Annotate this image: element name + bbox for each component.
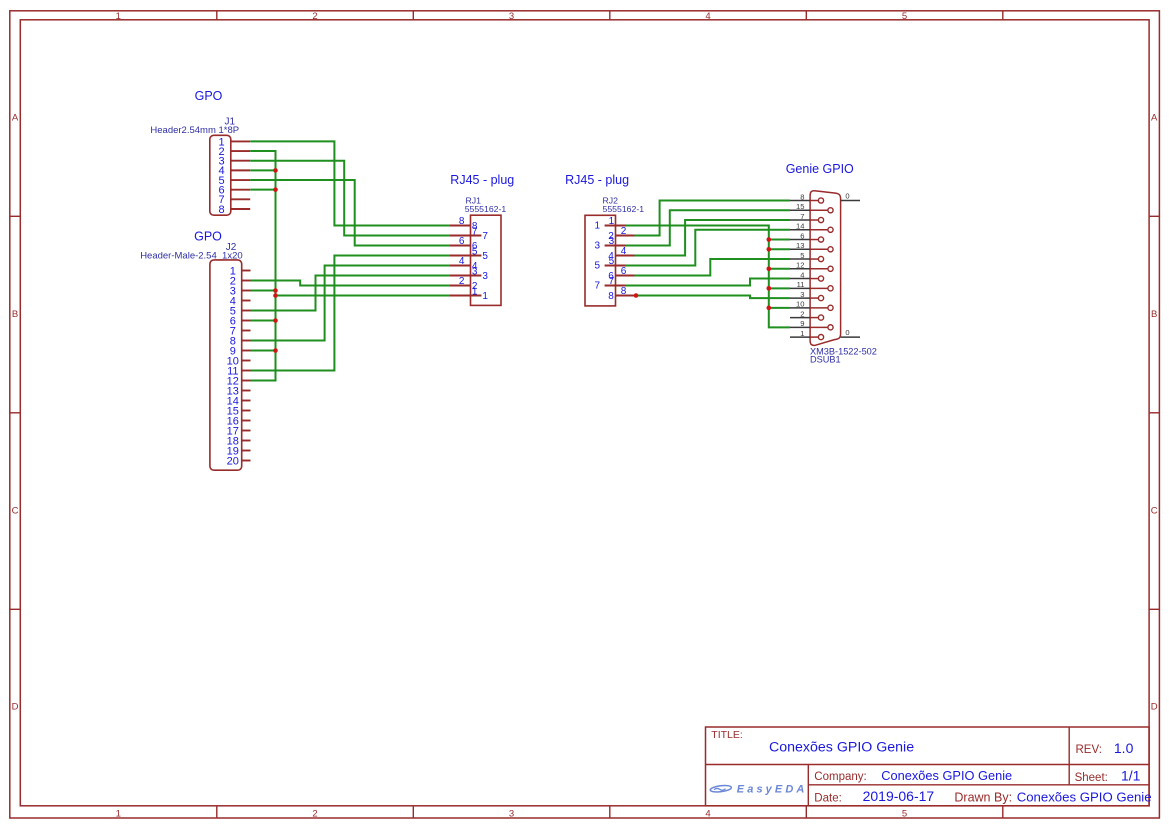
svg-text:1: 1 [594, 221, 600, 232]
DSUB1 shield pin 0 top [841, 192, 860, 201]
wire ground bus to DSUB1.11 [769, 287, 790, 289]
wire RJ2.5 to DSUB1.14 [626, 230, 791, 266]
svg-text:12: 12 [796, 261, 804, 270]
svg-text:1: 1 [609, 216, 615, 227]
wire J2.11 to RJ1.5 [251, 256, 451, 371]
net label RJ45 - plug (RJ1) [450, 173, 514, 187]
svg-text:13: 13 [796, 241, 804, 250]
title block row divider 2 [808, 784, 1149, 786]
svg-text:A: A [1151, 113, 1158, 124]
svg-text:Company:: Company: [814, 771, 866, 783]
DSUB1 pin circles [810, 198, 833, 340]
svg-text:A: A [12, 113, 19, 124]
svg-text:REV:: REV: [1076, 744, 1102, 756]
frame left row labels A-D [12, 113, 19, 713]
svg-text:5: 5 [594, 261, 600, 272]
part name XM3B-1522-502 [810, 347, 877, 357]
title block outline [706, 727, 1150, 806]
label Company: [814, 771, 866, 783]
wire RJ2.1 ground bus to DSUB1.9 [626, 226, 791, 328]
connector RJ1 body [471, 215, 502, 305]
wire ground bus to DSUB1.10 [769, 307, 790, 309]
J2 pins 1-20 stubs [242, 271, 251, 461]
wire RJ2.2 to DSUB1.8 [635, 201, 791, 236]
svg-text:2: 2 [459, 276, 465, 287]
label Date: [814, 793, 842, 805]
svg-text:11: 11 [797, 280, 805, 289]
svg-text:6: 6 [800, 231, 804, 240]
svg-text:TITLE:: TITLE: [711, 729, 743, 741]
junction J2.9 [273, 348, 278, 353]
frame bottom ticks [217, 806, 1003, 818]
svg-text:3: 3 [472, 267, 478, 278]
RJ1 pin stubs [450, 226, 481, 296]
junction RJ2.8 [634, 293, 639, 298]
svg-text:2: 2 [312, 809, 317, 820]
svg-text:5: 5 [902, 809, 907, 820]
J1 pins 1-8 stubs [231, 141, 250, 209]
wire RJ2.6 to DSUB1.5 [635, 259, 791, 275]
frame bottom column labels 1-5 [116, 809, 907, 820]
RJ2 pin stubs [605, 226, 635, 296]
DSUB1 shell [810, 191, 841, 346]
svg-text:Genie GPIO: Genie GPIO [786, 162, 854, 176]
svg-text:0: 0 [845, 192, 849, 201]
svg-text:Conexões GPIO Genie: Conexões GPIO Genie [769, 740, 914, 756]
svg-text:2: 2 [312, 11, 317, 22]
wire J1.2 bus vertical to J2.12 [250, 151, 275, 380]
svg-text:GPO: GPO [195, 89, 223, 103]
frame right ticks [1149, 216, 1159, 609]
svg-text:5: 5 [800, 251, 804, 260]
net label GPO (J2) [194, 230, 222, 244]
label Drawn By: [954, 791, 1012, 805]
junction J1.6 [273, 187, 278, 192]
svg-text:4: 4 [800, 270, 804, 279]
svg-text:4: 4 [621, 246, 627, 257]
svg-text:1: 1 [482, 291, 488, 302]
designator RJ1 [466, 196, 482, 206]
svg-text:7: 7 [472, 227, 478, 238]
EasyEDA logo [710, 783, 808, 795]
wire J1.6 to bus [250, 189, 275, 191]
svg-text:14: 14 [796, 222, 804, 231]
svg-text:4: 4 [705, 809, 710, 820]
connector J2 body [210, 260, 242, 470]
svg-text:3: 3 [609, 236, 615, 247]
svg-text:Date:: Date: [814, 793, 842, 805]
label TITLE: [711, 729, 743, 741]
J2 pin numbers 1-20 [227, 265, 239, 467]
svg-text:6: 6 [459, 236, 465, 247]
svg-text:9: 9 [800, 319, 804, 328]
svg-text:Conexões GPIO Genie: Conexões GPIO Genie [881, 768, 1012, 783]
svg-text:0: 0 [845, 328, 849, 337]
rev value 1.0 [1114, 740, 1134, 756]
wire bus to RJ1.1 [276, 295, 451, 297]
title text Conexões GPIO Genie [769, 740, 914, 756]
svg-text:5: 5 [902, 11, 907, 22]
J1 pin numbers 1-8 [218, 136, 224, 216]
part name 5555162-1 (RJ1) [465, 204, 507, 214]
svg-text:7: 7 [800, 212, 804, 221]
svg-text:7: 7 [594, 281, 600, 292]
svg-text:RJ45 - plug: RJ45 - plug [450, 173, 514, 187]
DSUB1 shield pin 0 bottom [841, 328, 860, 337]
junction J2.3 [273, 288, 278, 293]
wire J2.2 to RJ1.2 [251, 281, 451, 286]
wire J1.4 to bus [250, 169, 275, 171]
junction ground bus DSUB1.12 [767, 266, 772, 271]
svg-text:RJ45 - plug: RJ45 - plug [565, 173, 629, 187]
wire J2.8 to RJ1.4 [251, 266, 451, 341]
wire J2.6 to bus [251, 320, 276, 322]
wire J2.9 to bus [251, 350, 276, 352]
svg-text:2: 2 [800, 309, 804, 318]
svg-text:5: 5 [609, 256, 615, 267]
label REV: [1076, 744, 1102, 756]
svg-text:4: 4 [705, 11, 710, 22]
wire J1.5 to RJ1.6 [250, 180, 450, 245]
svg-text:EasyEDA: EasyEDA [737, 783, 808, 795]
title block logo cell divider [807, 765, 809, 806]
svg-text:8: 8 [621, 286, 627, 297]
svg-text:6: 6 [621, 266, 627, 277]
svg-text:8: 8 [800, 192, 804, 201]
designator J2 [226, 242, 237, 253]
svg-text:B: B [12, 309, 18, 320]
junction ground bus DSUB1.11 [767, 286, 772, 291]
svg-text:4: 4 [459, 256, 465, 267]
junction ground bus DSUB1.10 [767, 306, 772, 311]
wire ground bus to DSUB1.12 [769, 268, 790, 270]
designator DSUB1 [810, 355, 841, 365]
wire J2.3 to bus [251, 290, 276, 292]
svg-text:20: 20 [227, 455, 239, 467]
net label GPO (J1) [195, 89, 223, 103]
wire RJ2.3 to DSUB1.15 [626, 210, 791, 245]
RJ2 pin numbers [594, 216, 626, 302]
net label RJ45 - plug (RJ2) [565, 173, 629, 187]
svg-text:1: 1 [472, 287, 478, 298]
wire ground bus to DSUB1.6 [769, 239, 790, 241]
drawn by value [1017, 790, 1152, 805]
title block rev/sheet divider [1068, 727, 1070, 785]
title block row divider 1 [706, 764, 1150, 766]
svg-text:Drawn By:: Drawn By: [954, 791, 1012, 805]
svg-text:15: 15 [796, 202, 804, 211]
connector RJ2 body [585, 215, 616, 306]
svg-text:5: 5 [482, 251, 488, 262]
RJ1 pin numbers [459, 216, 489, 302]
svg-text:3: 3 [594, 241, 600, 252]
wire J2.5 to RJ1.3 [251, 276, 451, 311]
designator J1 [225, 116, 236, 127]
svg-text:5: 5 [472, 247, 478, 258]
svg-text:D: D [1151, 702, 1158, 713]
svg-text:7: 7 [609, 276, 615, 287]
svg-text:C: C [1151, 506, 1158, 517]
svg-text:1/1: 1/1 [1121, 768, 1141, 784]
svg-text:DSUB1: DSUB1 [810, 355, 841, 365]
wire RJ2.4 to DSUB1.7 [635, 220, 791, 255]
svg-text:1: 1 [116, 11, 121, 22]
svg-text:8: 8 [218, 204, 224, 216]
junction J2.6 [273, 318, 278, 323]
wire J1.1 to RJ1.8 [250, 141, 450, 225]
svg-text:1.0: 1.0 [1114, 740, 1134, 756]
label Sheet: [1075, 772, 1108, 784]
svg-text:D: D [12, 702, 19, 713]
svg-text:C: C [12, 506, 19, 517]
svg-text:3: 3 [800, 290, 804, 299]
svg-text:8: 8 [459, 216, 465, 227]
part name Header-Male-2.54_1x20 [140, 251, 242, 262]
net label Genie GPIO [786, 162, 854, 176]
company value [881, 768, 1012, 783]
junction ground bus DSUB1.6 [767, 237, 772, 242]
svg-text:10: 10 [796, 300, 804, 309]
svg-text:3: 3 [509, 11, 514, 22]
frame top column labels 1-5 [116, 11, 907, 22]
wire ground bus to DSUB1.13 [769, 248, 790, 250]
junction ground bus DSUB1.13 [767, 247, 772, 252]
svg-text:8: 8 [608, 291, 614, 302]
designator RJ2 [603, 196, 619, 206]
junction bus RJ1.1 [273, 293, 278, 298]
svg-text:3: 3 [482, 271, 488, 282]
DSUB1 pin numbers [796, 192, 804, 338]
svg-text:5555162-1: 5555162-1 [465, 204, 507, 214]
connector J1 body [210, 135, 231, 215]
svg-text:Sheet:: Sheet: [1075, 772, 1108, 784]
part name 5555162-1 (RJ2) [603, 204, 645, 214]
svg-text:7: 7 [482, 231, 488, 242]
frame right row labels A-D [1151, 113, 1158, 713]
svg-text:Conexões GPIO Genie: Conexões GPIO Genie [1017, 790, 1152, 805]
junction J1.4 [273, 168, 278, 173]
wire J1.3 to RJ1.7 [250, 161, 450, 236]
svg-text:GPO: GPO [194, 230, 222, 244]
svg-text:B: B [1151, 309, 1157, 320]
frame top ticks [217, 11, 1003, 20]
frame left ticks [10, 216, 20, 609]
svg-text:2: 2 [621, 226, 627, 237]
svg-text:1: 1 [800, 329, 804, 338]
DSUB1 pin lines [790, 201, 810, 338]
part name Header2.54mm 1*8P [150, 125, 239, 136]
svg-text:1: 1 [116, 809, 121, 820]
svg-text:3: 3 [509, 809, 514, 820]
wire RJ2.8 to DSUB1.3 [635, 296, 791, 299]
svg-text:2019-06-17: 2019-06-17 [863, 788, 935, 804]
sheet value 1/1 [1121, 768, 1141, 784]
date value 2019-06-17 [863, 788, 935, 804]
svg-text:5555162-1: 5555162-1 [603, 204, 645, 214]
wire RJ2.7 to DSUB1.4 [626, 279, 791, 286]
